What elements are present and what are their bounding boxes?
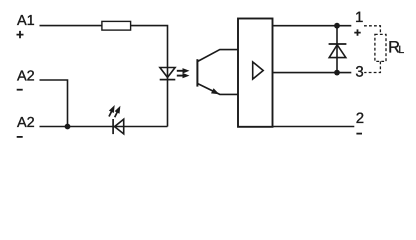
junction dot line 1	[334, 23, 340, 29]
terminal label 3	[355, 63, 363, 80]
light emission arrows to phototransistor	[177, 68, 190, 78]
wire A1 to resistor	[40, 25, 102, 27]
svg-text:A2: A2	[17, 69, 35, 85]
amplifier box U1	[238, 19, 273, 127]
svg-text:A2: A2	[17, 115, 35, 131]
svg-text:3: 3	[355, 63, 363, 80]
svg-text:2: 2	[356, 110, 364, 127]
minus sign under upper A2	[17, 89, 23, 91]
phototransistor Q1	[197, 50, 237, 95]
svg-text:A1: A1	[17, 13, 35, 29]
output wire 1	[273, 25, 351, 27]
svg-text:1: 1	[355, 9, 363, 26]
dashed load connection bottom	[364, 61, 380, 72]
amplifier triangle	[253, 62, 264, 79]
junction dot A2	[65, 124, 71, 130]
freewheeling diode D2	[329, 26, 347, 73]
svg-text:L: L	[398, 44, 404, 56]
load label RL	[388, 38, 404, 56]
minus sign under lower A2	[17, 136, 23, 138]
terminal label A1	[17, 13, 35, 29]
output wire 2	[273, 126, 354, 128]
plus sign under terminal 1	[354, 29, 360, 35]
minus sign under terminal 2	[356, 133, 362, 135]
terminal label 2	[356, 110, 364, 127]
indicator LED D3	[109, 105, 124, 134]
plus sign under A1	[17, 31, 24, 38]
terminal label 1	[355, 9, 363, 26]
wire A2 lower through indicator LED	[40, 126, 168, 128]
dashed load connection top	[364, 26, 380, 35]
junction dot line 3	[334, 70, 340, 76]
terminal label A2 (upper)	[17, 69, 35, 85]
wire A2 upper to junction	[40, 80, 68, 127]
optocoupler LED D1	[160, 68, 176, 80]
wire resistor to corner and down to LED / A2 line	[131, 26, 168, 127]
resistor R1	[102, 21, 131, 30]
load resistor RL dashed box	[375, 34, 386, 61]
output wire 3	[273, 72, 351, 74]
terminal label A2 (lower)	[17, 115, 35, 131]
